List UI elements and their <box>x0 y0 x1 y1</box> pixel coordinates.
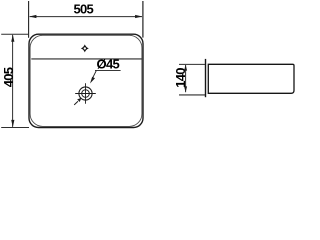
dim 140 dimension line <box>185 65 187 92</box>
drain symbol <box>75 83 96 104</box>
sink top view inner rim <box>30 35 142 126</box>
dim 405 arrow top <box>11 35 14 42</box>
dim 140 arrow top <box>184 65 187 71</box>
dim 140 extension line bottom <box>179 94 205 96</box>
dim 140 arrow bottom <box>184 86 187 92</box>
dim 505 dimension line <box>30 16 142 18</box>
faucet hole symbol <box>81 44 89 52</box>
side view left rim edge <box>205 59 207 97</box>
drain pointer arrow lower-left <box>74 98 81 105</box>
dim 405 arrow bottom <box>11 120 14 127</box>
basin divider line <box>31 58 141 60</box>
dim 505 extension line right <box>142 1 144 38</box>
sink top view outer outline <box>29 34 143 127</box>
svg-text:Ø45: Ø45 <box>97 57 120 72</box>
dim 505 extension line left <box>28 1 30 38</box>
dim 505 arrow left <box>29 15 36 18</box>
dim 505 arrow right <box>135 15 142 18</box>
svg-text:405: 405 <box>1 67 16 87</box>
svg-text:140: 140 <box>173 68 188 88</box>
dim 405 extension line top <box>1 33 29 35</box>
dim 405 dimension line <box>12 35 14 127</box>
dim 140 extension line top <box>179 63 205 65</box>
label underline <box>95 69 121 71</box>
side view body rectangle <box>208 64 294 93</box>
drain leader arrow from label <box>90 71 96 84</box>
dim 405 extension line bottom <box>1 127 29 129</box>
svg-text:505: 505 <box>74 2 94 17</box>
